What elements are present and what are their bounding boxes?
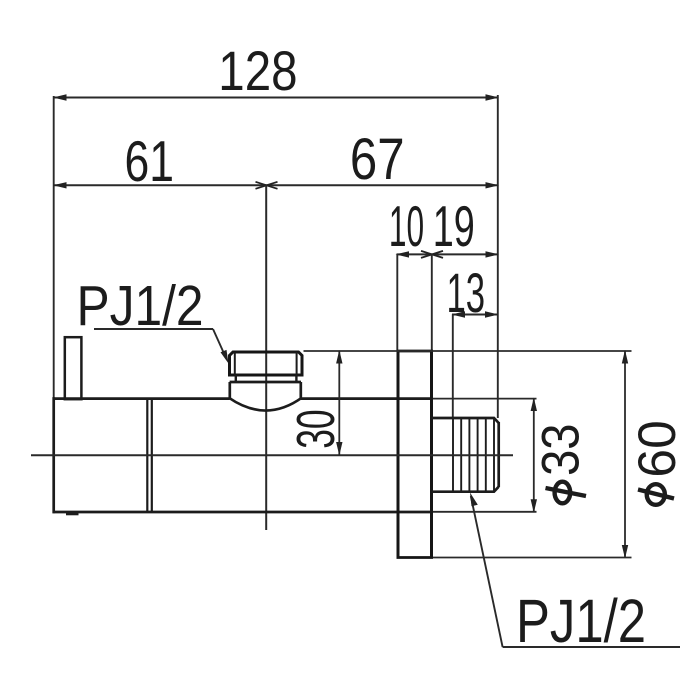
spigot right edge (497, 422, 500, 487)
leader underline PJ1/2 top (94, 328, 213, 330)
dimension line phi60 (622, 350, 628, 559)
valve body bottom edge (53, 511, 432, 514)
extension line right x=498 (497, 95, 499, 418)
svg-text:10: 10 (389, 194, 424, 258)
wall flange right edge (430, 351, 433, 558)
valve body top edge (53, 397, 230, 400)
wall flange bottom edge (397, 556, 434, 559)
leader arrowhead bottom (470, 493, 478, 507)
svg-text:67: 67 (350, 127, 405, 192)
extension line x=397 (396, 254, 398, 351)
body joint line 1 (146, 399, 148, 512)
shoulder right side (299, 382, 302, 399)
phi33 top extension line (432, 398, 537, 400)
thread line 1 (452, 418, 454, 492)
svg-text:128: 128 (218, 40, 297, 103)
extension line x=432 (431, 254, 433, 351)
dimension line 128 (53, 94, 499, 100)
handle stem rectangle (65, 337, 82, 399)
thread line 5 (485, 418, 487, 492)
wall flange top edge (397, 350, 434, 353)
thread line 4 (477, 418, 479, 492)
wall flange left edge (397, 351, 400, 558)
dimension line 13 (452, 311, 499, 317)
valve body left edge (52, 397, 55, 513)
phi symbol of phi60 (638, 484, 674, 505)
bottom tick mark (66, 513, 79, 516)
horizontal centerline (31, 454, 513, 456)
shoulder top line (230, 381, 301, 384)
body joint line 2 (151, 399, 153, 512)
dimension line 10 / 19 (396, 251, 500, 258)
spigot top edge (432, 418, 499, 423)
leader underline PJ1/2 bottom (503, 646, 680, 648)
spigot bottom edge (432, 487, 499, 492)
thread line 2 (460, 418, 462, 492)
svg-text:60: 60 (628, 420, 687, 477)
svg-text:PJ1/2: PJ1/2 (516, 587, 646, 656)
svg-text:30: 30 (286, 409, 346, 448)
thread line 6 (493, 418, 495, 492)
phi symbol of phi33 (546, 482, 587, 504)
top extension line y=351 (for 30 and phi60) (304, 350, 632, 352)
leader line PJ1/2 bottom (471, 496, 503, 647)
nut facet line right (296, 352, 298, 375)
collar left (235, 375, 237, 382)
leader line PJ1/2 top (213, 329, 227, 359)
svg-text:61: 61 (124, 128, 174, 193)
svg-text:33: 33 (531, 423, 590, 475)
thread line 3 (468, 418, 470, 492)
nut facet line left (234, 352, 236, 375)
extension line left x=54 (53, 96, 55, 398)
collar right (295, 375, 297, 382)
leader arrowhead top (221, 350, 229, 364)
dimension line 30 (336, 350, 342, 456)
saddle intersection arc (229, 398, 302, 411)
svg-text:19: 19 (433, 195, 475, 259)
dimension line 61 / 67 (53, 182, 499, 189)
extension line x=453 (452, 315, 454, 419)
vertical centerline x=266 (265, 185, 267, 530)
phi60 bottom extension line (433, 557, 632, 559)
dimension line phi33 (531, 398, 537, 513)
shoulder left side (228, 382, 231, 399)
top nut outline (230, 352, 303, 375)
phi33 bottom extension line (432, 511, 537, 513)
